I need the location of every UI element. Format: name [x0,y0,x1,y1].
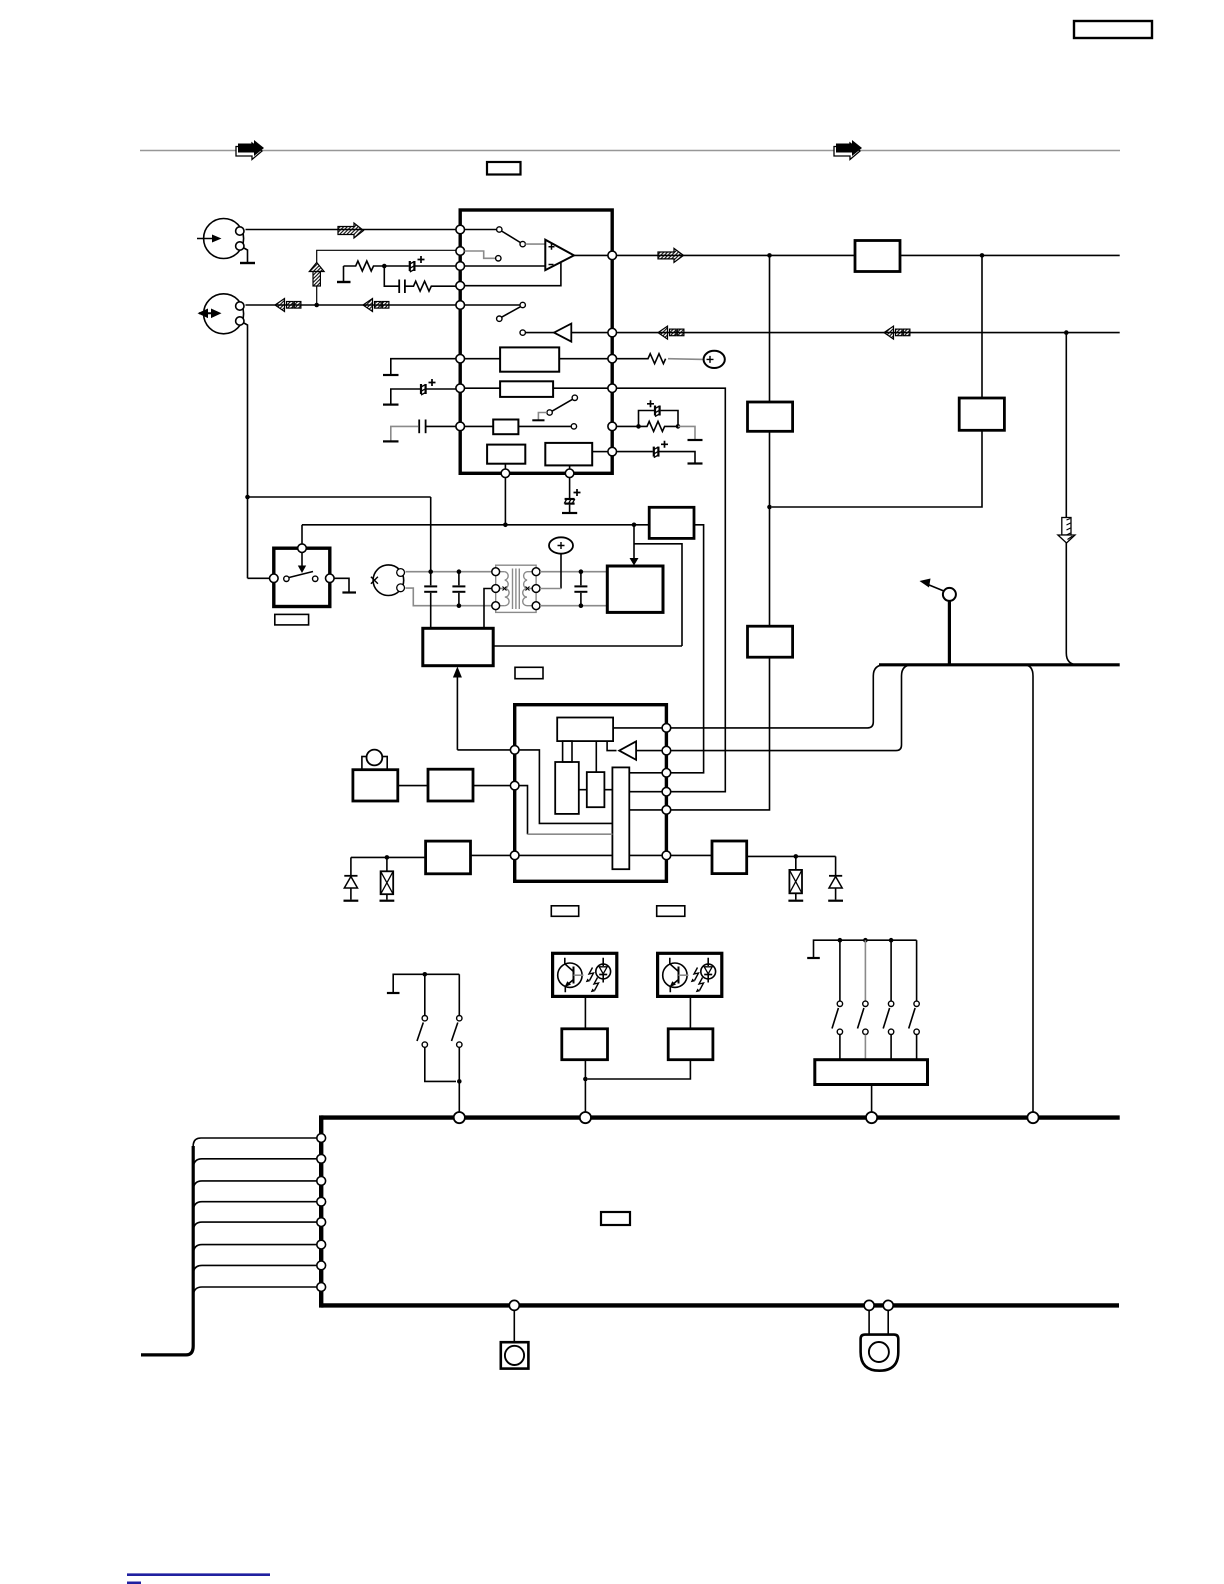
connector J4 (bottom rounded) [861,1310,899,1370]
bus top pins [454,1112,1039,1123]
block B15 (tall rect inside U2) [555,762,579,814]
harness trunk (thick curve bottom-left) [141,1146,193,1355]
buffer U2a (triangle pointing left) [607,741,662,760]
harness wire W4 [193,1202,317,1211]
junction node I [423,972,428,977]
wire U2 pin 750 up to rail [671,665,913,751]
switch S1 (inside U1, input select) [465,227,546,247]
ground G2 (RC row 266) [343,266,345,281]
wire J1 to U1 pin1 [246,229,459,231]
junction nodes row 255 [767,253,772,258]
harness wire W8 [193,1287,317,1296]
hatched arrow H3 (up arrow to pin2 line) [309,250,458,305]
switch S3 (inside U1) [532,395,577,420]
wire y524.8 rail [302,525,704,773]
block arrow A2 (top-middle flow arrow) [834,140,862,160]
wires B17 to right pins [629,773,662,810]
ground G5 [393,974,459,992]
oscillator X1 (circle with X) [371,565,405,596]
bus left pins [317,1134,326,1292]
block B2 (inside U1) [465,381,609,397]
block B19 [428,769,473,801]
junction node C (x770/y507) [767,505,772,510]
block B18 (mic amp) [353,770,398,801]
block B7 (on x770 vertical) [748,402,793,431]
label box L4 [551,906,578,917]
wire links B15-B16-B17 [579,789,613,791]
block B23 (below PC2) [588,996,713,1079]
bus box bottom edge [321,1303,1119,1307]
resistor R4 + capacitor C6 + ground (row 426) [617,400,703,440]
harness wire W1 [193,1138,317,1146]
junction node D (U1 bottom pin drop) [504,478,506,525]
ground (J1 sleeve) [243,248,248,263]
switch S4b [452,974,462,1112]
harness wire W7 [193,1265,317,1274]
junction node E + arrow into block B11 [632,523,637,528]
wire B18 to B19 [398,785,428,787]
switch S5b [858,940,869,1059]
capacitor C5 electrolytic + ground (U1 bottom pin 570) [562,478,581,513]
opto coupler PC2 [658,953,722,996]
op-amp U1a triangle [545,240,574,270]
wire U1 pin2 stub [465,251,496,258]
wire: top horizontal signal line [140,150,1120,152]
block B12 (power rect right of T1) [607,566,663,612]
hatched arrow H5 (row 255) [658,248,684,262]
wire op-amp output to right pin [574,254,608,256]
diode D2 + ground [828,856,843,900]
wire B24 to bus [871,1085,873,1113]
wire U2 bottom row 855 [519,854,662,856]
connector J3 (bottom square) [501,1310,529,1368]
bus box top edge [321,1115,1119,1119]
connector J2 (line in/out jack) [198,294,245,334]
switch S4a [417,974,456,1081]
block B9 (on x982 vertical) [959,398,1004,430]
wire U2 pin 728 up to rail [671,665,885,728]
wire osc top to transformer [406,571,496,573]
link underline (bottom-left) [127,1573,270,1576]
junction node on J2 wire [314,303,319,308]
switch S5c [883,940,894,1059]
block B6 (on row 255) [855,241,900,272]
transformer T1 pins [492,568,540,610]
ground G4 (SW1 right) [334,578,349,591]
hatched arrow H8 (down arrow on x1066) [1058,333,1078,665]
wire rail down to bus (x1033) [1024,665,1033,1112]
wire vertical x982 + link to node C [772,255,982,507]
switch box SW1 [270,544,335,607]
block B10 (on y524 rail) [649,507,694,538]
capacitor C4 + ground (U1 pin 426) [383,420,456,442]
U2 right pins [662,724,671,860]
label box L1 (below top line) [487,162,521,175]
label box L0 (top-right corner) [1074,21,1152,38]
op-amp IC U1 body [460,210,612,473]
harness wire W5 [193,1222,317,1231]
ground G3 (U1 pin 358) [383,359,456,375]
block B13 (top rect inside U2) [557,718,662,742]
junction node G [794,854,799,859]
switch S2 (inside U1) [465,302,526,321]
link mark (cut at page edge) [127,1582,141,1584]
buffer U1b triangle (pointing left) [520,324,608,342]
wire osc bottom to transformer [406,588,496,606]
block B16 (small rect inside U2) [587,772,605,807]
controller IC U2 body [515,705,667,882]
wire U2 left pin 786 routing (gray) [519,786,528,835]
block B14 (narrow link rect inside U2) [563,741,572,762]
capacitor C1 electrolytic (row 266) [384,256,458,272]
harness wire W2 [193,1159,317,1168]
wire node A to capacitor column [248,496,431,498]
antenna / test switch TP3 [920,579,956,665]
block B5 (inside U1) [545,443,608,469]
junction node row 332 [1064,330,1069,335]
capacitor C8 (x431 column) [424,497,437,628]
test point TP2 (+ ellipse above T1) [540,537,573,588]
wire pin4 feedback [465,263,561,286]
resonator Y2 (box with X) + ground [788,856,803,900]
junction nodes on osc lines [428,569,433,574]
block B4 (inside U1) [487,445,525,469]
block B17 (big tall rect inside U2) [612,767,629,869]
label box L3 (below B12 area) [515,667,543,678]
hatched arrow H6 (row 332 left) [658,326,684,339]
wire J2 sleeve long vertical to switch box [243,323,270,579]
wire B19 to U2 [473,785,511,787]
wire U1 out row 255 [617,254,1120,256]
thick rail (y665) [879,663,1120,666]
label box L2 (below SW1) [275,614,309,625]
wire U1 row 388 to U2 [617,388,726,792]
block B21 (right of U2 bottom row) [671,841,836,874]
capacitor C3 electrolytic + ground (U1 pin 388) [383,379,456,405]
hatched arrow H2 (left arrow + squares on J2 wire) [275,299,301,312]
label box L6 (inside bus box) [601,1212,630,1225]
block B3 (inside U1) [465,420,577,435]
wire U2 left pin 750 routing [519,750,612,824]
U1 right pins [608,251,617,456]
transformer T1 [496,565,536,612]
capacitor C7 electrolytic + ground (row 451) [617,441,703,464]
ground G6 [814,940,917,957]
resistor R1 (row 266) [344,261,385,271]
switch S5d [909,940,920,1059]
bus box left edge [319,1115,323,1307]
bus bottom pins [509,1300,893,1310]
block B24 (switch header) [815,1060,928,1085]
wire U1 row 332 [617,332,1120,334]
wire switch box feed [301,525,303,544]
opto coupler PC1 [553,953,617,996]
capacitor C2 + resistor R2 (row 286) [384,266,458,293]
label box L5 [657,906,685,917]
U1 bottom pins [501,469,574,478]
block B22 (below PC1) [562,996,608,1112]
junction node J [457,1079,462,1084]
block B20 (left of U2 bottom row) [351,841,511,874]
block B8 (on x770 vertical lower) [748,626,793,657]
block B1 (inside U1) [465,347,609,371]
junction nodes [838,938,843,943]
wire arrow from U2 pin into B11 bottom [453,667,511,750]
resistor R3 + test point TP1 (row 358) [617,351,725,368]
wire stub (B13 to B16) [595,741,597,772]
junction node B [382,264,387,269]
hatched arrow H4 (left arrow + squares near U1 pin5) [363,299,389,312]
junction node F [385,855,390,860]
hatched arrow H1 (signal direction on J1 wire) [338,223,364,238]
block arrow A1 (top-left flow arrow) [236,140,264,160]
diode D1 + ground [344,857,359,900]
wire T1 secondary to block B12 [540,571,607,573]
switch S5a [832,940,843,1059]
capacitor C9 (x459 column) [452,572,465,606]
wire J2 to U1 pin5 [246,304,459,306]
U2 left pins [510,746,519,860]
harness wire W6 [193,1245,317,1254]
wire vertical x770 (row255 to U2 pin 810) [671,255,770,810]
wire pin3 to op-amp inverting input [465,265,546,267]
junction node A (on long vertical) [245,495,250,500]
wire B12 feedback loop to node E column [493,544,682,646]
block B11 (left power rect) [423,628,493,665]
resonator Y1 (box with X) + ground [380,857,395,900]
wire T1 mid-left tap down to block B11 [484,589,492,629]
capacitor C10 (x581) [574,572,587,606]
junction node H [583,1077,588,1082]
microphone MIC1 [362,750,387,770]
U1 left pins [456,225,465,431]
harness wire W3 [193,1181,317,1190]
hatched arrow H7 (row 332 right) [884,326,910,339]
connector J1 (line input jack) [197,219,244,259]
